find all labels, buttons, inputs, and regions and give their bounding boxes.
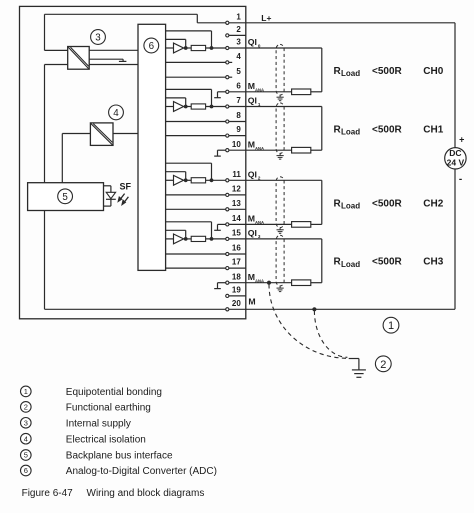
terminal 13 (226, 199, 242, 211)
wire terminal 5 to border (229, 76, 232, 78)
label limit CH0 (372, 66, 403, 77)
wire functional earth dashed (314, 311, 347, 358)
figure caption (22, 488, 205, 499)
svg-text:9: 9 (236, 125, 241, 134)
terminal 7 (226, 96, 242, 108)
label 5 (58, 189, 73, 204)
svg-text:4: 4 (113, 108, 119, 119)
wire terminal 14 to border (229, 223, 246, 225)
load resistor RLoad CH0 (292, 89, 311, 95)
cable shield CH1 (276, 103, 284, 153)
label plus (459, 135, 464, 145)
label RLoad CH2 (334, 198, 361, 210)
svg-text:2: 2 (236, 25, 241, 34)
label RLoad CH0 (334, 66, 361, 78)
svg-text:24 V: 24 V (447, 157, 465, 167)
svg-text:6: 6 (149, 41, 155, 52)
resistor R1 (191, 104, 205, 109)
module frame (20, 6, 246, 318)
svg-text:<500R: <500R (372, 66, 403, 77)
wire M rail bottom (45, 308, 226, 310)
label M_ANA terminal 10 (248, 139, 264, 150)
svg-text:7: 7 (236, 96, 241, 105)
wire resistor to terminal CH1 (206, 106, 226, 108)
svg-text:3: 3 (236, 38, 241, 47)
ground M_ANA at terminal 6 (214, 92, 226, 98)
svg-text:15: 15 (232, 229, 241, 238)
svg-text:12: 12 (232, 185, 241, 194)
svg-text:11: 11 (232, 170, 241, 179)
svg-text:CH1: CH1 (423, 124, 443, 135)
svg-text:M: M (248, 296, 255, 306)
node terminal 18 shield bond (267, 281, 271, 285)
wire QI3 to load (246, 239, 322, 283)
wire QI0 to load (246, 48, 322, 92)
label QI3 (248, 228, 261, 239)
label 6 (144, 38, 159, 53)
wire supply feed into internal supply (45, 49, 68, 51)
svg-text:1: 1 (388, 320, 394, 332)
wire equipotential bonding dashed (269, 284, 348, 358)
resistor R2 (191, 178, 205, 183)
svg-text:QI: QI (248, 37, 257, 47)
wire terminal 20 to border (229, 308, 246, 310)
svg-text:2: 2 (380, 359, 386, 371)
node CH0 op-amp output (184, 46, 188, 50)
wire terminal 1 to border (229, 22, 246, 24)
wire terminal 2 to border (229, 34, 246, 36)
wire ADC to terminal 4 (166, 61, 226, 63)
svg-text:16: 16 (232, 244, 241, 253)
label CH0 (423, 66, 443, 77)
svg-text:Load: Load (341, 128, 360, 137)
wire terminal 10 to border (229, 149, 246, 151)
wire terminal 15 to border (229, 238, 246, 240)
wire terminal 13 to border (229, 208, 246, 210)
legend item 1 (21, 386, 163, 398)
load resistor RLoad CH3 (292, 280, 311, 286)
wire supply to ADC lower (89, 64, 138, 66)
op-amp A0 (174, 43, 184, 53)
wire CH3 DAC output (166, 238, 174, 240)
svg-text:19: 19 (232, 286, 241, 295)
terminal 9 (226, 125, 242, 137)
wire supply to ADC upper (89, 49, 138, 51)
wire CH0 DAC output (166, 47, 174, 49)
terminal 17 (226, 258, 242, 270)
svg-text:20: 20 (232, 299, 241, 308)
label QI1 (248, 96, 261, 107)
svg-text:5: 5 (236, 67, 241, 76)
terminal 16 (226, 244, 242, 256)
svg-text:3: 3 (95, 33, 101, 44)
label M_ANA terminal 18 (248, 272, 264, 283)
svg-text:Figure 6-47: Figure 6-47 (22, 488, 74, 499)
label RLoad CH1 (334, 124, 361, 136)
wire internal reference with chassis tick (89, 59, 126, 61)
svg-text:Wiring and block diagrams: Wiring and block diagrams (87, 488, 205, 499)
svg-text:2: 2 (24, 403, 28, 412)
svg-text:M: M (248, 272, 255, 282)
wire CH1 sense A (166, 89, 212, 106)
svg-text:CH0: CH0 (423, 66, 443, 77)
svg-text:10: 10 (232, 140, 241, 149)
label 3 (91, 30, 106, 45)
svg-text:CH2: CH2 (423, 198, 443, 209)
wire terminal 7 to border (229, 106, 246, 108)
resistor R0 (191, 45, 205, 50)
wire CH3 sense B (166, 230, 186, 239)
svg-text:6: 6 (236, 81, 241, 90)
label 1 equipotential (383, 317, 399, 333)
svg-text:M: M (248, 214, 255, 224)
functional earth symbol (349, 359, 366, 378)
wire terminal 17 to border (229, 267, 246, 269)
svg-text:5: 5 (24, 451, 28, 460)
wire op-amp to resistor CH3 (184, 238, 192, 240)
svg-text:CH3: CH3 (423, 257, 443, 268)
internal supply U3 (68, 47, 90, 70)
svg-text:Load: Load (341, 260, 360, 269)
label M_ANA terminal 14 (248, 214, 264, 225)
node CH1 op-amp output (184, 105, 188, 109)
wire op-amp to resistor CH2 (184, 179, 192, 181)
svg-text:5: 5 (62, 192, 68, 203)
svg-text:<500R: <500R (372, 198, 403, 209)
wire terminal 12 to border (229, 194, 246, 196)
label 4 (109, 105, 124, 120)
wire CH0 sense B (166, 39, 186, 48)
wire ADC to terminal 16 (166, 253, 226, 255)
legend item 2 (21, 402, 151, 414)
svg-text:Load: Load (341, 69, 360, 78)
svg-text:SF: SF (120, 181, 132, 191)
svg-text:L+: L+ (261, 13, 271, 23)
svg-text:Backplane bus interface: Backplane bus interface (66, 451, 173, 462)
wire M_ANA to load CH0 (246, 91, 322, 93)
terminal 3 (226, 38, 242, 50)
node CH1 output sense (210, 105, 214, 109)
legend item 3 (21, 418, 131, 430)
terminal 6 (226, 81, 242, 93)
wire terminal 8 to border (229, 121, 246, 123)
isolation box U4 (90, 123, 113, 145)
wire terminal 16 to border (229, 253, 246, 255)
label M (248, 296, 255, 306)
svg-text:Analog-to-Digital Converter (A: Analog-to-Digital Converter (ADC) (66, 466, 217, 477)
svg-text:4: 4 (24, 434, 28, 443)
wire CH1 sense B (166, 98, 186, 107)
wire CH2 sense A (166, 163, 212, 180)
wire terminal 18 to border (229, 282, 246, 284)
wire backplane to isolation (62, 134, 90, 183)
wire resistor to terminal CH2 (206, 179, 226, 181)
supply DC 24V (445, 148, 466, 169)
legend item 5 (21, 450, 173, 462)
node CH0 output sense (210, 46, 214, 50)
wire terminal 6 to border (229, 91, 246, 93)
wire op-amp to resistor CH0 (184, 47, 192, 49)
terminal 2 (226, 25, 242, 37)
svg-text:13: 13 (232, 199, 241, 208)
label limit CH1 (372, 124, 403, 135)
node M rail bond (312, 307, 316, 311)
wire ADC to terminal 9 (166, 135, 226, 137)
label QI2 (248, 170, 261, 181)
terminal 8 (226, 111, 242, 123)
svg-text:6: 6 (24, 466, 28, 475)
shield earth CH1 (277, 153, 284, 159)
terminal 4 (226, 52, 242, 64)
svg-text:17: 17 (232, 258, 241, 267)
wire terminal 3 to border (229, 47, 246, 49)
node CH3 op-amp output (184, 237, 188, 241)
svg-text:QI: QI (248, 96, 257, 106)
svg-text:14: 14 (232, 214, 241, 223)
ground M_ANA at terminal 18 (214, 283, 226, 289)
label CH2 (423, 198, 443, 209)
wire terminal 11 to border (229, 179, 246, 181)
terminal 19 (226, 286, 242, 298)
label 2 earthing (375, 356, 391, 372)
label limit CH2 (372, 198, 403, 209)
wire QI1 to load (246, 107, 322, 151)
svg-text:1: 1 (24, 387, 28, 396)
wire terminal 19 to border (229, 295, 246, 297)
ground M_ANA at terminal 14 (214, 224, 226, 230)
load resistor RLoad CH2 (292, 222, 311, 228)
svg-text:3: 3 (24, 419, 28, 428)
cable shield CH0 (276, 44, 284, 95)
resistor R3 (191, 236, 205, 241)
svg-text:+: + (459, 135, 464, 145)
shield earth CH0 (277, 95, 284, 101)
label minus (459, 174, 462, 185)
terminal 20 (226, 299, 242, 311)
wire CH3 sense A (166, 222, 212, 239)
svg-text:8: 8 (236, 111, 241, 120)
node CH2 op-amp output (184, 178, 188, 182)
label SF (120, 181, 132, 191)
svg-text:Load: Load (341, 202, 360, 211)
wire M external (246, 308, 455, 310)
shield earth CH3 (277, 286, 284, 292)
load resistor RLoad CH1 (292, 147, 311, 153)
terminal 15 (226, 229, 242, 241)
svg-text:<500R: <500R (372, 257, 403, 268)
wire L+ external (246, 23, 455, 148)
wire CH2 sense B (166, 172, 186, 181)
label CH3 (423, 257, 443, 268)
terminal 5 (226, 67, 242, 79)
cable shield CH3 (276, 235, 284, 286)
wire op-amp to resistor CH1 (184, 106, 192, 108)
wire M_ANA to load CH2 (246, 223, 322, 225)
terminal 12 (226, 185, 242, 197)
shield earth CH2 (277, 228, 284, 234)
label RLoad CH3 (334, 257, 361, 269)
node CH3 output sense (210, 237, 214, 241)
wire M_ANA to load CH3 (246, 282, 322, 284)
svg-text:M: M (248, 139, 255, 149)
wire QI2 to load (246, 180, 322, 224)
label CH1 (423, 124, 443, 135)
terminal 18 (226, 272, 242, 284)
svg-text:QI: QI (248, 170, 257, 180)
svg-text:QI: QI (248, 228, 257, 238)
wire ADC to terminal 5 (166, 76, 226, 78)
node CH2 output sense (210, 178, 214, 182)
terminal 1 (226, 12, 242, 24)
svg-text:Internal supply: Internal supply (66, 418, 131, 429)
svg-text:Electrical isolation: Electrical isolation (66, 434, 146, 445)
wire supply minus rail (454, 169, 456, 309)
svg-text:Equipotential bonding: Equipotential bonding (66, 387, 162, 398)
label QI0 (248, 37, 261, 48)
svg-text:<500R: <500R (372, 124, 403, 135)
svg-text:Functional earthing: Functional earthing (66, 403, 151, 414)
wire ADC to terminal 12 (166, 194, 226, 196)
svg-text:-: - (459, 174, 462, 185)
terminal 10 (226, 140, 242, 152)
svg-text:1: 1 (236, 12, 241, 21)
wire M return from internal supply (45, 65, 68, 310)
op-amp A2 (174, 175, 184, 185)
wire ADC to terminal 13 (166, 208, 226, 210)
svg-text:4: 4 (236, 52, 241, 61)
legend item 4 (21, 433, 146, 445)
wire ADC to terminal 17 (166, 267, 226, 269)
backplane interface U5 (28, 183, 104, 211)
label limit CH3 (372, 257, 403, 268)
wire terminal 9 to border (229, 135, 246, 137)
wire terminal 4 to border (229, 61, 232, 63)
label M_ANA terminal 6 (248, 81, 264, 92)
wire resistor to terminal CH3 (206, 238, 226, 240)
svg-text:18: 18 (232, 272, 241, 281)
wire CH2 DAC output (166, 179, 174, 181)
terminal 11 (226, 170, 242, 182)
wire ADC to terminal 8 (166, 121, 226, 123)
wire M_ANA to load CH1 (246, 149, 322, 151)
wire isolation to ADC (113, 133, 138, 135)
op-amp A1 (174, 102, 184, 112)
label L+ (261, 13, 271, 23)
legend item 6 (21, 465, 217, 477)
wire CH1 DAC output (166, 106, 174, 108)
terminal 14 (226, 214, 242, 226)
LED SF (104, 186, 129, 206)
ADC U6 (138, 24, 166, 270)
wire CH0 sense A (166, 31, 212, 48)
wire resistor to terminal CH0 (206, 47, 226, 49)
cable shield CH2 (276, 177, 284, 228)
ground M_ANA at terminal 10 (214, 150, 226, 156)
svg-text:M: M (248, 81, 255, 91)
wire L+ rail (45, 14, 226, 50)
op-amp A3 (174, 234, 184, 244)
